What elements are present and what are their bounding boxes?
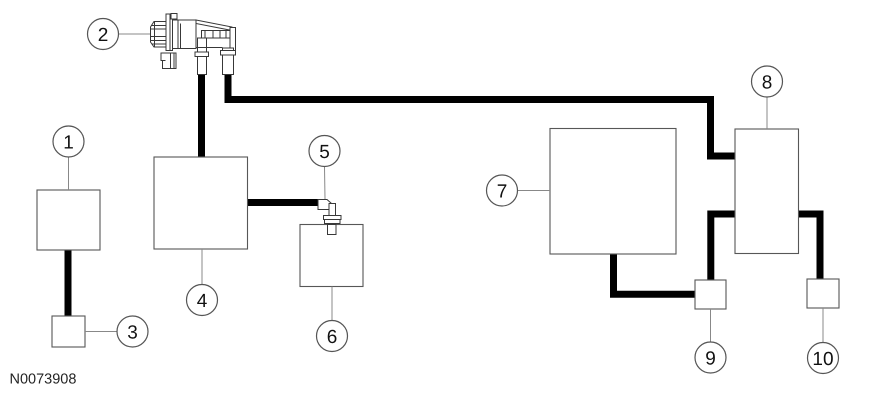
callout 8 (752, 66, 783, 129)
box 4 (154, 157, 248, 249)
box 9 (695, 280, 726, 309)
box 7 (550, 129, 676, 255)
part number label N0073908 (10, 372, 77, 388)
connector body (151, 22, 167, 48)
right cap (230, 28, 236, 52)
box 10 (807, 279, 839, 308)
box 6 (300, 225, 363, 287)
svg-text:1: 1 (63, 133, 74, 154)
right port (223, 48, 234, 75)
flange top tab (171, 14, 177, 20)
callout 2 (88, 19, 151, 50)
top slanted surface (196, 20, 232, 31)
callout 4 (187, 249, 218, 316)
valve assembly (component 2) (151, 14, 236, 75)
callout 5 (309, 136, 340, 200)
callout 3 (85, 316, 148, 347)
box 1 (37, 190, 100, 250)
svg-text:5: 5 (319, 142, 330, 163)
svg-text:N0073908: N0073908 (10, 372, 77, 388)
body bottom line (196, 47, 223, 49)
hose from box4 to fitting5 (248, 199, 320, 206)
hose from valve right port to box8 (long run) (228, 74, 735, 156)
svg-text:3: 3 (127, 323, 138, 344)
main body (173, 20, 197, 49)
svg-text:2: 2 (98, 25, 109, 46)
box 3 (52, 316, 85, 347)
box 8 (735, 129, 799, 254)
hose from box7 to box9 (614, 254, 696, 294)
right stem (202, 31, 231, 39)
flange plate (166, 14, 170, 51)
svg-text:8: 8 (762, 73, 773, 94)
fitting (component 5) (318, 200, 341, 235)
callout 10 (808, 308, 839, 374)
svg-text:6: 6 (327, 327, 338, 348)
svg-text:10: 10 (812, 349, 833, 370)
hose from box9 to box8 (711, 214, 735, 280)
left port (198, 38, 207, 75)
callout 7 (487, 175, 551, 206)
callout 9 (695, 309, 726, 373)
svg-text:4: 4 (197, 291, 208, 312)
hose from box8 to box10 (799, 214, 821, 279)
svg-text:7: 7 (497, 182, 508, 203)
hose from valve left port to box4 (198, 74, 205, 157)
svg-text:9: 9 (705, 349, 716, 370)
callout 1 (53, 126, 84, 190)
callout 6 (317, 287, 348, 352)
bottom bracket (161, 53, 176, 69)
hose from box1 to box3 (65, 250, 72, 316)
